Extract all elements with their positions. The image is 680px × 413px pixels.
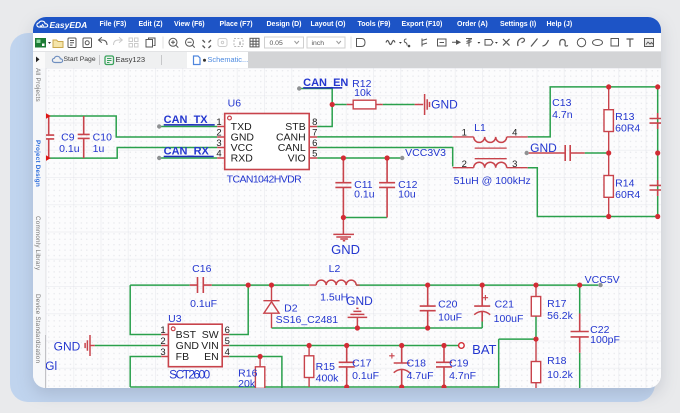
svg-text:C18: C18 (407, 358, 426, 369)
svg-text:VCC: VCC (231, 143, 254, 154)
svg-text:6: 6 (225, 325, 230, 336)
svg-text:GND: GND (431, 97, 458, 111)
svg-text:4.7n: 4.7n (552, 110, 573, 121)
svg-text:L1: L1 (474, 123, 486, 134)
svg-text:400k: 400k (316, 373, 339, 384)
svg-text:SW: SW (202, 330, 219, 341)
svg-text:60R4: 60R4 (615, 190, 640, 201)
svg-text:4.7nF: 4.7nF (449, 370, 476, 381)
svg-text:51uH @ 100kHz: 51uH @ 100kHz (454, 176, 531, 187)
svg-text:BST: BST (176, 330, 197, 341)
svg-text:CAN_RX: CAN_RX (164, 145, 210, 157)
svg-text:0.1u: 0.1u (354, 189, 375, 200)
svg-text:TCAN1042HVDR: TCAN1042HVDR (227, 174, 302, 185)
svg-text:5: 5 (312, 148, 317, 159)
svg-text:6: 6 (312, 138, 317, 149)
svg-text:GND: GND (530, 141, 557, 155)
svg-text:0.1u: 0.1u (59, 144, 80, 155)
svg-text:4.7uF: 4.7uF (407, 370, 434, 381)
svg-text:2: 2 (462, 159, 467, 170)
svg-text:C20: C20 (438, 299, 457, 310)
svg-text:R17: R17 (547, 298, 566, 309)
svg-text:10uF: 10uF (438, 312, 462, 323)
svg-text:C10: C10 (93, 132, 112, 143)
svg-text:GND: GND (346, 293, 373, 307)
svg-text:C21: C21 (495, 299, 514, 310)
svg-text:100uF: 100uF (494, 313, 524, 324)
svg-text:4: 4 (512, 127, 517, 138)
svg-text:VIO: VIO (288, 153, 306, 164)
svg-text:R16: R16 (238, 368, 257, 379)
svg-text:1: 1 (462, 127, 467, 138)
svg-text:BAT: BAT (472, 341, 496, 356)
svg-text:R14: R14 (615, 178, 634, 189)
svg-text:10.2k: 10.2k (547, 369, 573, 380)
svg-text:0.1uF: 0.1uF (190, 298, 217, 309)
svg-text:C16: C16 (192, 263, 211, 274)
svg-text:C13: C13 (552, 98, 571, 109)
svg-text:56.2k: 56.2k (547, 310, 573, 321)
svg-text:5: 5 (225, 336, 230, 347)
svg-text:3: 3 (512, 159, 517, 170)
svg-text:CANH: CANH (276, 132, 306, 143)
svg-text:SCT2600: SCT2600 (169, 367, 210, 381)
svg-text:U6: U6 (228, 98, 242, 109)
svg-text:RXD: RXD (231, 153, 254, 164)
svg-text:R15: R15 (316, 361, 335, 372)
svg-text:CAN_TX: CAN_TX (164, 113, 209, 125)
svg-text:100pF: 100pF (590, 334, 620, 345)
svg-text:GND: GND (176, 341, 200, 352)
svg-text:R18: R18 (547, 355, 566, 366)
svg-text:U3: U3 (168, 313, 182, 324)
svg-text:FB: FB (176, 352, 189, 363)
svg-text:7: 7 (312, 127, 317, 138)
svg-text:C19: C19 (449, 358, 468, 369)
svg-text:3: 3 (217, 138, 222, 149)
svg-text:1: 1 (217, 117, 222, 128)
svg-text:60R4: 60R4 (615, 123, 640, 134)
svg-text:GND: GND (331, 241, 360, 256)
svg-text:VCC3V3: VCC3V3 (405, 148, 446, 159)
svg-text:2: 2 (217, 127, 222, 138)
svg-text:R13: R13 (615, 112, 634, 123)
svg-text:0.1uF: 0.1uF (352, 370, 379, 381)
svg-text:D2: D2 (284, 303, 298, 314)
svg-text:C9: C9 (61, 132, 75, 143)
svg-text:1: 1 (161, 325, 166, 336)
svg-text:0.05: 0.05 (269, 40, 282, 47)
svg-text:8: 8 (312, 117, 317, 128)
svg-text:L2: L2 (329, 263, 341, 274)
svg-text:4: 4 (225, 347, 230, 358)
svg-text:Gl: Gl (46, 358, 57, 372)
svg-text:VCC5V: VCC5V (585, 274, 620, 285)
svg-text:SS16_C2481: SS16_C2481 (276, 314, 339, 325)
svg-text:EN: EN (204, 352, 219, 363)
svg-text:1u: 1u (93, 144, 105, 155)
svg-text:GND: GND (231, 132, 255, 143)
svg-text:STB: STB (286, 122, 306, 133)
svg-text:4: 4 (217, 148, 222, 159)
svg-text:inch: inch (311, 40, 324, 47)
svg-text:2: 2 (161, 336, 166, 347)
svg-text:CAN_EN: CAN_EN (303, 76, 348, 88)
svg-text:TXD: TXD (231, 122, 252, 133)
svg-text:1.5uH: 1.5uH (320, 292, 348, 303)
svg-text:3: 3 (161, 347, 166, 358)
svg-text:CANL: CANL (278, 143, 306, 154)
svg-text:10k: 10k (354, 88, 372, 99)
svg-text:10u: 10u (398, 189, 416, 200)
svg-text:VIN: VIN (202, 341, 219, 352)
svg-text:GND: GND (54, 339, 81, 353)
svg-text:20k: 20k (238, 378, 256, 388)
svg-text:C17: C17 (352, 358, 371, 369)
